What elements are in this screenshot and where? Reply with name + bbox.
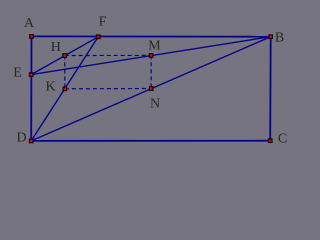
wire rectangle side CD (bottom) bbox=[31, 140, 270, 142]
wire segment DF bbox=[31, 37, 98, 141]
node E bbox=[29, 73, 33, 77]
svg-text:H: H bbox=[51, 40, 61, 55]
wire rectangle side DA (left) bbox=[30, 36, 32, 140]
svg-text:K: K bbox=[45, 80, 55, 95]
node H bbox=[63, 54, 67, 58]
svg-text:B: B bbox=[275, 31, 284, 46]
wire dashed segment HK bbox=[64, 56, 66, 89]
wire segment DB bbox=[31, 37, 271, 141]
node M bbox=[149, 54, 153, 58]
node C bbox=[268, 139, 272, 143]
wire segment EF bbox=[31, 37, 98, 75]
svg-text:E: E bbox=[13, 65, 22, 80]
svg-text:N: N bbox=[150, 97, 160, 112]
wire dashed segment MN bbox=[150, 55, 152, 88]
node A bbox=[30, 35, 34, 39]
node D bbox=[29, 139, 33, 143]
svg-text:A: A bbox=[24, 16, 35, 31]
wire dashed segment KN bbox=[65, 88, 151, 90]
node B bbox=[269, 35, 273, 39]
wire rectangle side AB (top) bbox=[32, 35, 271, 37]
svg-text:C: C bbox=[278, 132, 287, 147]
wire segment EB bbox=[31, 37, 271, 75]
node K bbox=[63, 87, 67, 91]
node F bbox=[96, 35, 100, 39]
node N bbox=[149, 87, 153, 91]
svg-text:F: F bbox=[99, 15, 107, 30]
wire rectangle side BC (right) bbox=[269, 37, 272, 141]
svg-text:D: D bbox=[16, 131, 26, 146]
wire dashed segment HM bbox=[65, 54, 151, 56]
svg-text:M: M bbox=[148, 38, 161, 53]
